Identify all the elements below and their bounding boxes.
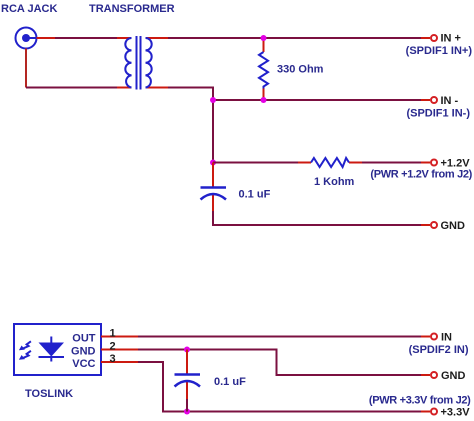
C1 bottom plate arc (201, 194, 227, 200)
svg-text:3: 3 (110, 353, 116, 365)
pin RCA bottom (25, 49, 27, 88)
svg-text:1: 1 (110, 328, 116, 340)
pin C1 top (212, 163, 214, 188)
wire RCA to transformer top (55, 37, 117, 39)
resistor R1 zigzag (259, 52, 268, 89)
pin R2 left (298, 162, 311, 164)
junction C2 top (184, 347, 190, 353)
junction R1 top (261, 35, 267, 41)
wire pin1 to IN terminal (138, 336, 421, 338)
capacitor C1 0.1 uF (201, 163, 227, 212)
wire RCA bottom to transformer (26, 87, 117, 89)
wire pin3 down and right (138, 362, 421, 412)
svg-text:(PWR +1.2V from J2): (PWR +1.2V from J2) (370, 169, 472, 181)
svg-text:2: 2 (110, 341, 116, 353)
C2 bottom plate arc (175, 381, 201, 387)
wire C2 bottom to rail (186, 399, 188, 412)
terminal IN+ (421, 35, 437, 41)
pin transformer bottom-right (146, 87, 169, 89)
pin R1 top (263, 38, 265, 52)
terminal IN bottom (421, 334, 437, 340)
resistor R1 330 Ohm (259, 38, 268, 100)
svg-text:(SPDIF2 IN): (SPDIF2 IN) (409, 344, 469, 356)
photodiode D1 (39, 343, 65, 357)
wire rail2 to IN- (213, 99, 421, 101)
C2 top plate (175, 373, 201, 376)
pin C1 bottom (212, 195, 214, 211)
svg-text:OUT: OUT (72, 333, 96, 345)
svg-text:330 Ohm: 330 Ohm (277, 64, 324, 76)
pin transformer top-right (146, 37, 169, 39)
pin U1-3 (101, 361, 138, 363)
pin R1 bottom (263, 89, 265, 101)
resistor R2 1 Kohm (298, 158, 362, 167)
light arrow 2 (19, 351, 31, 360)
transformer right coil (146, 38, 152, 88)
svg-text:GND: GND (441, 220, 466, 232)
pin RCA right (37, 37, 56, 39)
pin transformer top-left (117, 37, 132, 39)
wire R2 to +1.2V terminal (362, 162, 421, 164)
pin C2 top (186, 350, 188, 375)
svg-text:(PWR +3.3V from J2): (PWR +3.3V from J2) (369, 395, 471, 407)
terminal +3.3V (421, 409, 437, 415)
svg-text:GND: GND (441, 370, 466, 382)
wire pin2 to GND corner (138, 350, 421, 376)
svg-text:(SPDIF1 IN-): (SPDIF1 IN-) (406, 108, 470, 120)
junction C2 bottom (184, 409, 190, 415)
pin R2 right (349, 162, 362, 164)
wire transformer bottom-right to corner (168, 88, 213, 101)
svg-text:IN -: IN - (441, 95, 459, 107)
wire rail3 junction to R2 (213, 162, 298, 164)
transformer T1 (117, 36, 168, 90)
pin U1-2 (101, 349, 138, 351)
light arrow 1 (19, 341, 31, 350)
C1 top plate (201, 186, 227, 189)
svg-text:TRANSFORMER: TRANSFORMER (89, 3, 175, 15)
svg-text:IN +: IN + (441, 33, 461, 45)
junction rail2 left (210, 97, 216, 103)
capacitor C2 0.1 uF (175, 350, 201, 412)
svg-text:(SPDIF1 IN+): (SPDIF1 IN+) (406, 45, 473, 57)
terminal GND top (421, 222, 437, 228)
transformer core (136, 36, 138, 90)
svg-text:VCC: VCC (72, 358, 95, 370)
svg-text:IN: IN (441, 332, 452, 344)
junction rail3 left (210, 160, 216, 166)
terminal IN- (421, 97, 437, 103)
svg-text:GND: GND (71, 346, 96, 358)
svg-text:0.1 uF: 0.1 uF (239, 189, 271, 201)
svg-text:+3.3V: +3.3V (441, 407, 471, 419)
svg-text:0.1 uF: 0.1 uF (214, 376, 246, 388)
junction R1 bottom (261, 97, 267, 103)
svg-text:RCA JACK: RCA JACK (1, 3, 57, 15)
transformer left coil (125, 38, 131, 88)
pin C2 bottom (186, 382, 188, 399)
TOSLINK module U1 (14, 324, 101, 375)
svg-text:1 Kohm: 1 Kohm (314, 176, 355, 188)
TOSLINK box (14, 324, 101, 375)
pin transformer bottom-left (117, 87, 132, 89)
wire rail1 transformer to IN+ (168, 37, 421, 39)
pin U1-1 (101, 336, 138, 338)
wire vertical rail2 to rail3 (212, 100, 214, 163)
svg-text:TOSLINK: TOSLINK (25, 388, 73, 400)
RCA jack J1 (16, 28, 37, 49)
terminal GND bottom (421, 372, 437, 378)
resistor R2 zigzag (311, 158, 349, 167)
wire C1 to rail4 (213, 211, 421, 225)
terminal +1.2V (421, 160, 437, 166)
